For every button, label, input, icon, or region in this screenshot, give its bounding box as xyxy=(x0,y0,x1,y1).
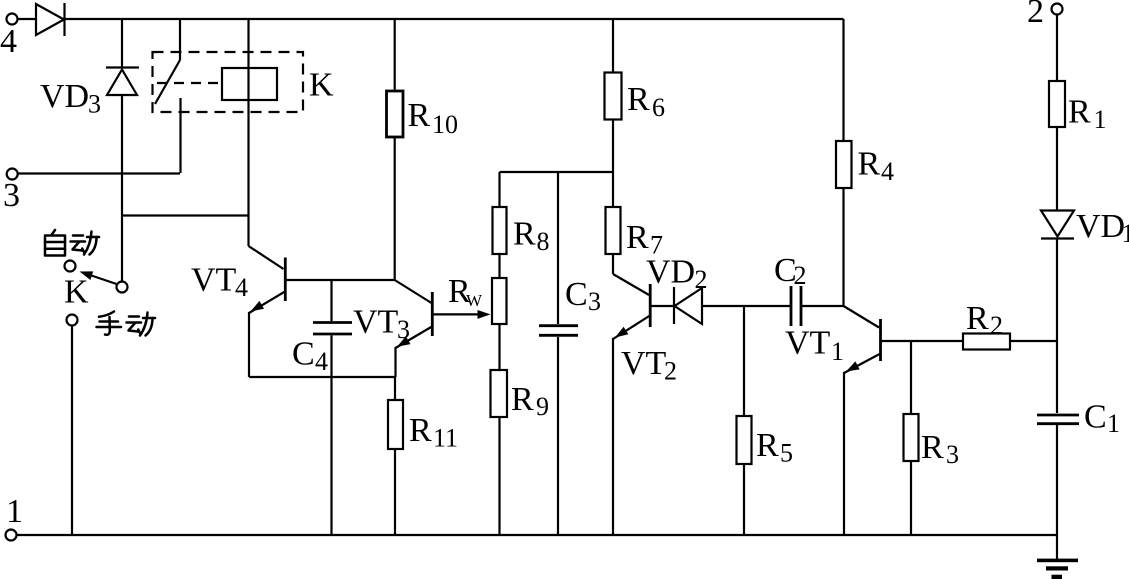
svg-text:9: 9 xyxy=(536,392,549,421)
wire VD2 to C2 xyxy=(702,305,790,307)
wire manual contact down xyxy=(71,326,73,536)
transistor VT2 xyxy=(613,274,677,386)
svg-text:1: 1 xyxy=(831,337,844,366)
wire VD3 branch upper xyxy=(121,19,123,67)
svg-text:R: R xyxy=(408,97,431,134)
svg-text:R: R xyxy=(921,429,944,466)
svg-text:R: R xyxy=(1068,94,1091,131)
wire VT3 emitter xyxy=(394,347,396,377)
svg-text:R: R xyxy=(513,216,536,253)
svg-text:2: 2 xyxy=(794,261,807,290)
svg-text:2: 2 xyxy=(695,265,708,294)
svg-text:2: 2 xyxy=(990,311,1003,340)
transistor VT4 xyxy=(191,246,285,313)
terminal 2 xyxy=(1027,0,1063,30)
svg-text:2: 2 xyxy=(1027,0,1044,30)
svg-text:3: 3 xyxy=(3,177,20,214)
potentiometer Rw wiper arrow xyxy=(432,273,490,319)
label 自动 xyxy=(45,230,65,256)
resistor R9 xyxy=(491,370,550,535)
diode VD1 xyxy=(1041,208,1129,248)
wire VT1 base xyxy=(881,340,964,342)
svg-text:3: 3 xyxy=(88,90,101,119)
svg-text:R: R xyxy=(409,412,432,449)
resistor R10 xyxy=(387,19,459,280)
svg-text:W: W xyxy=(466,291,483,310)
capacitor C4 xyxy=(292,280,352,535)
terminal 3 xyxy=(3,169,20,215)
switch K moving contact xyxy=(117,282,128,293)
wire relay coil branch xyxy=(247,19,249,246)
svg-text:2: 2 xyxy=(664,357,677,386)
svg-text:1: 1 xyxy=(1094,105,1107,134)
resistor R3 xyxy=(904,341,960,535)
diode VD3 xyxy=(40,68,139,119)
svg-text:1: 1 xyxy=(1107,409,1120,438)
wire R8 R6 link xyxy=(500,171,614,173)
svg-text:K: K xyxy=(309,67,334,104)
capacitor C2 xyxy=(774,252,807,326)
svg-text:4: 4 xyxy=(0,23,17,60)
relay K dashed box xyxy=(153,52,304,112)
wire cross link xyxy=(122,214,249,216)
svg-text:VD: VD xyxy=(40,78,89,115)
svg-text:C: C xyxy=(292,336,315,373)
resistor R7 xyxy=(606,207,664,274)
wire VT4 base xyxy=(285,279,394,281)
wire VD3 to switch contact xyxy=(121,95,123,281)
terminal 1 xyxy=(6,493,24,541)
wire VT2 base xyxy=(650,305,673,307)
capacitor C1 xyxy=(1037,399,1120,439)
wire top rail xyxy=(65,18,844,20)
diode VD2 xyxy=(646,254,708,325)
svg-text:VT: VT xyxy=(191,262,237,299)
resistor R4 xyxy=(836,19,894,306)
switch contact auto xyxy=(65,261,76,272)
relay mechanical link dashed xyxy=(157,82,222,84)
resistor R1 xyxy=(1049,15,1107,211)
resistor R2 xyxy=(963,300,1057,350)
svg-text:6: 6 xyxy=(652,93,665,122)
svg-text:R: R xyxy=(627,81,650,118)
wire bottom rail xyxy=(17,534,1059,536)
terminal 4 xyxy=(0,14,36,61)
wire right rail lower xyxy=(1056,425,1058,559)
svg-text:4: 4 xyxy=(881,157,894,186)
svg-text:R: R xyxy=(756,427,779,464)
svg-text:4: 4 xyxy=(235,273,248,302)
svg-text:R: R xyxy=(858,146,881,183)
svg-text:1: 1 xyxy=(1122,219,1129,248)
wire VT1 emitter down xyxy=(843,372,845,535)
wire right rail middle xyxy=(1056,240,1058,414)
transistor VT1 xyxy=(785,306,881,373)
svg-text:3: 3 xyxy=(588,287,601,316)
svg-text:11: 11 xyxy=(433,424,458,453)
svg-text:K: K xyxy=(64,274,89,311)
svg-text:VD: VD xyxy=(646,254,695,291)
relay contact xyxy=(155,19,181,173)
svg-text:8: 8 xyxy=(537,227,550,256)
switch contact manual xyxy=(67,315,78,326)
wire VT2 emitter down xyxy=(612,338,614,535)
svg-text:4: 4 xyxy=(315,347,328,376)
svg-text:10: 10 xyxy=(432,110,458,139)
ground xyxy=(1037,559,1078,579)
resistor R5 xyxy=(737,306,794,535)
svg-text:C: C xyxy=(1084,399,1107,436)
resistor R11 xyxy=(388,377,458,535)
svg-text:VT: VT xyxy=(353,304,399,341)
diode at terminal 4 xyxy=(36,3,65,36)
svg-text:R: R xyxy=(511,381,534,418)
svg-text:5: 5 xyxy=(780,439,793,468)
resistor R8 xyxy=(493,172,550,256)
resistor R6 xyxy=(605,19,666,207)
svg-text:VT: VT xyxy=(785,325,831,362)
svg-text:1: 1 xyxy=(6,493,23,530)
switch arm arrow xyxy=(80,271,117,284)
wire C2 to VT1 xyxy=(802,305,844,307)
transistor VT3 xyxy=(353,280,432,348)
svg-text:R: R xyxy=(626,219,649,256)
wire VT4 emitter xyxy=(249,312,396,377)
svg-text:C: C xyxy=(565,276,588,313)
capacitor C3 xyxy=(539,172,601,535)
svg-text:3: 3 xyxy=(397,315,410,344)
svg-text:VT: VT xyxy=(621,345,667,382)
wire terminal 3 to relay contact xyxy=(18,172,180,174)
svg-text:R: R xyxy=(966,300,989,337)
svg-text:VD: VD xyxy=(1076,208,1125,245)
svg-text:3: 3 xyxy=(946,440,959,469)
relay coil K xyxy=(222,68,277,100)
label 手动 xyxy=(97,312,122,335)
potentiometer Rw xyxy=(492,254,507,370)
